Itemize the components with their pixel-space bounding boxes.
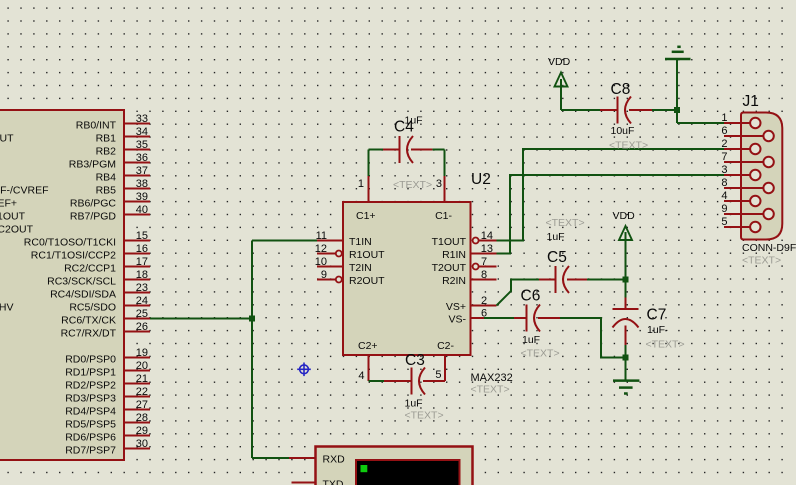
svg-text:/C2OUT: /C2OUT (0, 223, 34, 235)
svg-text:C6: C6 (521, 288, 541, 305)
svg-text:T1IN: T1IN (349, 236, 372, 248)
svg-text:<TEXT>: <TEXT> (742, 255, 781, 267)
svg-text:9: 9 (721, 203, 727, 215)
svg-text:1: 1 (358, 178, 364, 190)
svg-text:1uF: 1uF (547, 231, 565, 243)
svg-text:22: 22 (136, 386, 148, 398)
svg-text:39: 39 (136, 191, 148, 203)
svg-text:RB4: RB4 (96, 171, 117, 183)
svg-text:<TEXT>: <TEXT> (393, 179, 432, 191)
svg-text:RD5/PSP5: RD5/PSP5 (65, 418, 116, 430)
svg-text:38: 38 (136, 178, 148, 190)
svg-text:21: 21 (136, 373, 148, 385)
svg-text:C5: C5 (547, 249, 567, 266)
svg-text:RC6/TX/CK: RC6/TX/CK (61, 314, 116, 326)
svg-text:17: 17 (136, 256, 148, 268)
svg-text:12: 12 (315, 243, 327, 255)
svg-text:CONN-D9F: CONN-D9F (742, 242, 796, 254)
svg-text:C8: C8 (611, 81, 631, 98)
svg-text:1uF: 1uF (522, 334, 540, 346)
svg-text:RB5: RB5 (96, 184, 117, 196)
svg-text:13: 13 (481, 243, 493, 255)
svg-text:18: 18 (136, 269, 148, 281)
svg-text:2: 2 (481, 295, 487, 307)
svg-text:RB0/INT: RB0/INT (76, 119, 117, 131)
svg-text:4: 4 (358, 370, 364, 382)
svg-text:RXD: RXD (323, 454, 346, 466)
svg-text:4: 4 (721, 190, 727, 202)
svg-text:T2IN: T2IN (349, 262, 372, 274)
svg-text:J1: J1 (743, 93, 759, 110)
svg-text:R1OUT: R1OUT (349, 249, 385, 261)
svg-text:24: 24 (136, 295, 148, 307)
svg-text:14: 14 (481, 230, 493, 242)
svg-text:U2: U2 (471, 171, 491, 188)
svg-text:<TEXT>: <TEXT> (405, 410, 444, 422)
svg-text:RB7/PGD: RB7/PGD (70, 210, 117, 222)
svg-text:RB1: RB1 (96, 132, 117, 144)
svg-text:RD1/PSP1: RD1/PSP1 (65, 366, 116, 378)
svg-text:<TEXT>: <TEXT> (646, 339, 685, 351)
svg-text:RC4/SDI/SDA: RC4/SDI/SDA (50, 288, 116, 300)
svg-text:RD3/PSP3: RD3/PSP3 (65, 392, 116, 404)
svg-text:<TEXT>: <TEXT> (521, 348, 560, 360)
svg-text:C1-: C1- (435, 210, 452, 222)
svg-text:1uF: 1uF (405, 115, 423, 127)
svg-text:RD4/PSP4: RD4/PSP4 (65, 405, 116, 417)
svg-text:7: 7 (721, 151, 727, 163)
svg-text:3: 3 (721, 164, 727, 176)
svg-text:VS+: VS+ (446, 301, 466, 313)
svg-text:20: 20 (136, 360, 148, 372)
svg-text:1uF·: 1uF· (647, 324, 669, 336)
svg-text:37: 37 (136, 165, 148, 177)
svg-text:36: 36 (136, 152, 148, 164)
svg-text:RD2/PSP2: RD2/PSP2 (65, 379, 116, 391)
svg-text:<TEXT>: <TEXT> (546, 217, 585, 229)
svg-text:8: 8 (481, 269, 487, 281)
svg-text:8: 8 (721, 177, 727, 189)
svg-text:C7: C7 (647, 307, 667, 324)
svg-text:VS-: VS- (448, 314, 466, 326)
svg-text:R2OUT: R2OUT (349, 275, 385, 287)
svg-text:C2-: C2- (437, 340, 454, 352)
svg-text:EF-/CVREF: EF-/CVREF (0, 184, 49, 196)
svg-text:VDD: VDD (613, 210, 636, 222)
svg-text:C3: C3 (405, 352, 425, 369)
svg-text:1uF: 1uF (405, 398, 423, 410)
svg-text:RC1/T1OSI/CCP2: RC1/T1OSI/CCP2 (31, 249, 116, 261)
svg-text:34: 34 (136, 126, 148, 138)
svg-text:RC0/T1OSO/T1CKI: RC0/T1OSO/T1CKI (24, 236, 116, 248)
svg-text:RC3/SCK/SCL: RC3/SCK/SCL (47, 275, 116, 287)
svg-text:RB3/PGM: RB3/PGM (69, 158, 116, 170)
svg-text:11: 11 (316, 230, 327, 242)
svg-text:RD6/PSP6: RD6/PSP6 (65, 431, 116, 443)
svg-text:26: 26 (136, 321, 148, 333)
svg-text:1: 1 (721, 112, 727, 124)
svg-text:10uF: 10uF (611, 125, 635, 137)
svg-text:RC7/RX/DT: RC7/RX/DT (61, 327, 117, 339)
svg-text:28: 28 (136, 412, 148, 424)
svg-text:19: 19 (136, 347, 148, 359)
svg-text:R2IN: R2IN (442, 275, 466, 287)
svg-text:<TEXT>: <TEXT> (471, 384, 510, 396)
svg-text:C2+: C2+ (358, 340, 378, 352)
svg-text:VDD: VDD (548, 56, 571, 68)
svg-text:T2OUT: T2OUT (432, 262, 467, 274)
svg-text:23: 23 (136, 282, 148, 294)
svg-text:16: 16 (136, 243, 148, 255)
svg-text:T1OUT: T1OUT (432, 236, 467, 248)
svg-text:9: 9 (321, 269, 327, 281)
svg-text:6: 6 (721, 125, 727, 137)
svg-text:5: 5 (435, 369, 441, 381)
svg-text:RD0/PSP0: RD0/PSP0 (65, 353, 116, 365)
svg-text:R1IN: R1IN (442, 249, 466, 261)
svg-text:RD7/PSP7: RD7/PSP7 (65, 444, 116, 456)
svg-text:<TEXT>: <TEXT> (609, 140, 648, 152)
svg-text:2: 2 (721, 138, 727, 150)
svg-text:HV: HV (0, 301, 14, 313)
svg-text:30: 30 (136, 438, 148, 450)
svg-text:27: 27 (136, 399, 148, 411)
svg-text:35: 35 (136, 139, 148, 151)
svg-text:5: 5 (721, 216, 727, 228)
svg-text:MAX232: MAX232 (471, 372, 513, 384)
svg-text:RB2: RB2 (96, 145, 117, 157)
svg-text:1OUT: 1OUT (0, 210, 26, 222)
svg-text:UT: UT (0, 132, 14, 144)
svg-text:29: 29 (136, 425, 148, 437)
svg-text:3: 3 (436, 178, 442, 190)
svg-text:RC5/SDO: RC5/SDO (69, 301, 116, 313)
svg-text:15: 15 (136, 230, 148, 242)
svg-text:TXD: TXD (323, 479, 344, 485)
svg-text:33: 33 (136, 113, 148, 125)
svg-text:40: 40 (136, 204, 148, 216)
svg-text:C1+: C1+ (356, 210, 376, 222)
svg-text:RC2/CCP1: RC2/CCP1 (64, 262, 116, 274)
svg-text:EF+: EF+ (0, 197, 17, 209)
svg-text:25: 25 (136, 308, 148, 320)
svg-text:RB6/PGC: RB6/PGC (70, 197, 117, 209)
svg-text:10: 10 (315, 256, 327, 268)
svg-text:7: 7 (481, 256, 487, 268)
